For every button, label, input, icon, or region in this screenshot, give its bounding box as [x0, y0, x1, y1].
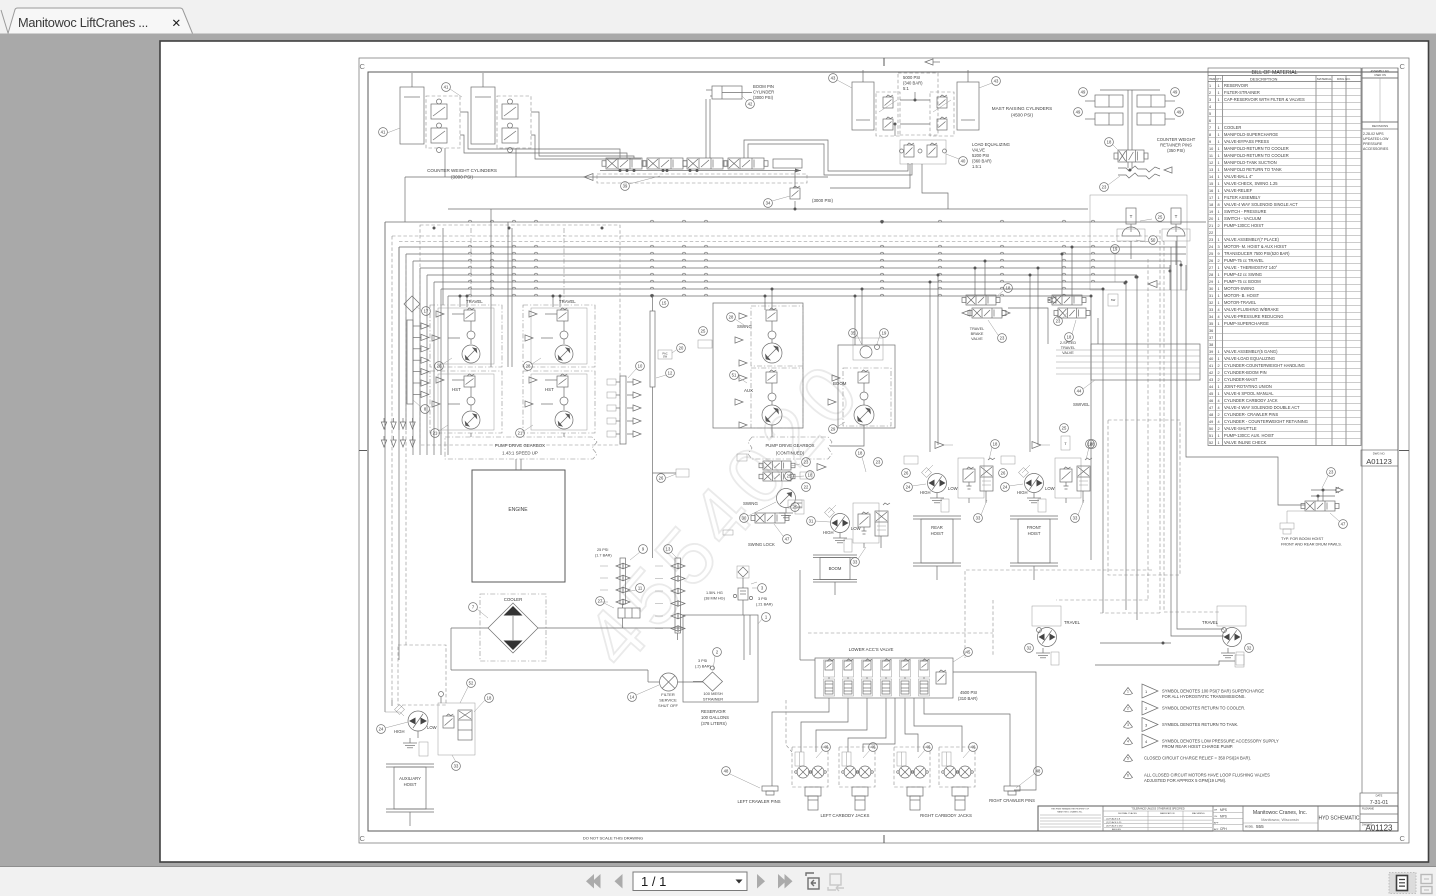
svg-text:1: 1: [1218, 126, 1220, 130]
previous view icon: [806, 873, 819, 889]
aux valve block: [438, 703, 475, 755]
svg-text:47: 47: [1209, 406, 1213, 410]
svg-text:BRAKE: BRAKE: [971, 332, 984, 336]
svg-text:APP: APP: [1214, 822, 1219, 825]
svg-text:23: 23: [1329, 470, 1334, 475]
svg-text:STRAINER: STRAINER: [703, 697, 723, 702]
wire boom pin down: [705, 99, 707, 158]
REAR hoist cluster: [902, 440, 1000, 580]
balloon 33: [452, 762, 461, 771]
svg-text:20: 20: [679, 346, 684, 351]
last page button: [778, 874, 786, 889]
svg-text:18: 18: [1107, 140, 1112, 145]
svg-text:49: 49: [1076, 110, 1081, 115]
svg-text:COUNTER WEIGHT: COUNTER WEIGHT: [1157, 137, 1196, 142]
balloon 26: [902, 469, 911, 478]
balloon 49: [1171, 88, 1180, 97]
svg-text:1 / 1: 1 / 1: [641, 874, 666, 889]
centering tick right: [1399, 450, 1409, 452]
svg-text:FILENAME: FILENAME: [1362, 808, 1374, 811]
cooler pipes: [451, 627, 488, 629]
boom hoist cluster: [785, 449, 890, 595]
svg-text:21: 21: [1209, 224, 1213, 228]
svg-text:LEFT CRAWLER PINS: LEFT CRAWLER PINS: [737, 799, 780, 804]
balloon 49: [1074, 108, 1083, 117]
svg-text:✕: ✕: [172, 18, 182, 30]
bank phantom outline: [597, 174, 807, 183]
svg-text:17: 17: [1209, 196, 1213, 200]
svg-text:VALVE-BYPASS PRESS: VALVE-BYPASS PRESS: [1224, 139, 1269, 144]
balloon 48: [722, 767, 731, 776]
cylinder counterweight: [400, 87, 424, 144]
svg-text:FRONT AND REAR DRUM PAWLS.: FRONT AND REAR DRUM PAWLS.: [1281, 543, 1342, 547]
note 3 symbol: [1124, 721, 1133, 728]
svg-text:CYLINDER-COUNTERWEIGHT HANDLIN: CYLINDER-COUNTERWEIGHT HANDLING: [1224, 363, 1305, 368]
travel motor right: [1202, 606, 1253, 665]
svg-text:35: 35: [851, 331, 856, 336]
svg-text:ADJUSTED FOR APPROX 5 GPM(19 L: ADJUSTED FOR APPROX 5 GPM(19 LPM).: [1144, 778, 1226, 783]
svg-text:15: 15: [662, 301, 667, 306]
svg-text:VALVE-LOAD EQUALIZING: VALVE-LOAD EQUALIZING: [1224, 356, 1275, 361]
aux wires: [384, 700, 386, 712]
svg-text:555: 555: [1256, 824, 1264, 829]
balloon 19: [880, 329, 889, 338]
svg-text:49: 49: [1173, 90, 1178, 95]
svg-text:3 PSI: 3 PSI: [698, 659, 707, 663]
svg-text:MANITOWOC CRANES, INC.: MANITOWOC CRANES, INC.: [1057, 811, 1083, 814]
svg-text:TYP. FOR BOOM HOIST: TYP. FOR BOOM HOIST: [1281, 537, 1324, 541]
down arrow rows: [381, 422, 386, 429]
balloon 13: [664, 545, 673, 554]
svg-text:MPS: MPS: [1220, 815, 1227, 819]
pump group AUX: [751, 368, 803, 428]
svg-text:6: 6: [1127, 774, 1129, 778]
valve block counterweight: [426, 96, 460, 148]
charge pump small: [853, 338, 883, 360]
svg-text:49: 49: [1209, 420, 1213, 424]
svg-text:31: 31: [809, 519, 814, 524]
svg-text:8: 8: [1209, 133, 1211, 137]
svg-text:FILTER-STRAINER: FILTER-STRAINER: [1224, 90, 1260, 95]
svg-text:23: 23: [1056, 319, 1061, 324]
svg-text:45: 45: [1209, 392, 1213, 396]
svg-text:1: 1: [1218, 238, 1220, 242]
svg-text:CYLINDER - COUNTERWEIGHT RETAI: CYLINDER - COUNTERWEIGHT RETAINING: [1224, 419, 1308, 424]
pump group HST: [430, 371, 502, 433]
svg-text:MPS: MPS: [1220, 808, 1227, 812]
svg-text:ANGLES: ANGLES: [1112, 828, 1121, 831]
svg-text:33: 33: [853, 560, 858, 565]
svg-text:MOTOR-TRAVEL: MOTOR-TRAVEL: [1224, 300, 1257, 305]
left crawler pins: [722, 767, 781, 804]
balloon 25: [699, 327, 708, 336]
svg-text:40: 40: [961, 159, 966, 164]
svg-text:5200 PSI: 5200 PSI: [972, 153, 989, 158]
svg-text:HIGH: HIGH: [823, 530, 833, 535]
svg-text:1.43:1 SPEED UP: 1.43:1 SPEED UP: [502, 451, 538, 456]
svg-text:DWG NO.: DWG NO.: [1337, 77, 1351, 81]
svg-text:DATE: DATE: [1376, 794, 1383, 798]
svg-text:43: 43: [994, 79, 999, 84]
svg-text:LOW: LOW: [1045, 486, 1055, 491]
svg-text:CYLINDER CARBODY JACK: CYLINDER CARBODY JACK: [1224, 398, 1278, 403]
svg-text:52: 52: [1209, 441, 1213, 445]
svg-text:TRAVEL: TRAVEL: [1202, 620, 1219, 625]
tab bar: [0, 0, 1436, 34]
balloon 24: [377, 725, 386, 734]
svg-text:1: 1: [1218, 266, 1220, 270]
balloon 18: [485, 694, 494, 703]
scrolling mode icon: [1421, 875, 1432, 894]
pump high-low rear: [928, 474, 947, 493]
dashed bus wires: [392, 235, 1160, 237]
svg-text:PUMP DRIVE GEARBOX: PUMP DRIVE GEARBOX: [495, 443, 545, 448]
svg-text:35: 35: [1209, 322, 1213, 326]
balloon 8: [421, 405, 430, 414]
svg-text:(350 PSI): (350 PSI): [1167, 148, 1185, 153]
svg-text:(310 BAR): (310 BAR): [958, 696, 978, 701]
right crawler pins: [989, 767, 1042, 803]
svg-text:HIGH: HIGH: [920, 490, 930, 495]
svg-text:19: 19: [1113, 247, 1118, 252]
balloon 2: [713, 648, 722, 657]
svg-text:1: 1: [1218, 98, 1220, 102]
svg-text:44: 44: [1209, 385, 1213, 389]
balloon 47: [783, 535, 792, 544]
svg-text:RESERVOIR: RESERVOIR: [1224, 83, 1248, 88]
svg-text:C: C: [360, 834, 366, 843]
svg-text:25: 25: [793, 505, 798, 510]
svg-text:1: 1: [1218, 161, 1220, 165]
svg-text:2-SPEED: 2-SPEED: [1060, 341, 1077, 345]
svg-text:30: 30: [1209, 287, 1213, 291]
valve pair 23 18: [653, 454, 815, 547]
svg-text:30: 30: [742, 516, 747, 521]
svg-text:CYLINDER: CYLINDER: [753, 90, 774, 95]
svg-text:38: 38: [1209, 343, 1213, 347]
svg-text:2: 2: [1218, 224, 1220, 228]
svg-text:CLOSED CIRCUIT CHARGE RELIEF =: CLOSED CIRCUIT CHARGE RELIEF = 350 PSI(2…: [1144, 756, 1251, 761]
centering tick bottom: [883, 835, 885, 843]
arrow return: [1148, 281, 1157, 288]
date box: [1360, 793, 1398, 806]
svg-text:REAR: REAR: [931, 525, 943, 530]
svg-text:FILTER: FILTER: [661, 692, 675, 697]
svg-text:SWING LOCK: SWING LOCK: [748, 542, 775, 547]
travel and hst pump groups: [430, 228, 595, 437]
strainer 2: [703, 672, 723, 691]
svg-text:3: 3: [1209, 98, 1211, 102]
svg-text:SW: SW: [1111, 298, 1116, 302]
svg-text:QTY: QTY: [1216, 77, 1222, 81]
pump drive gearbox: [445, 437, 597, 459]
svg-text:APP: APP: [1214, 828, 1219, 831]
title block: [1038, 806, 1398, 831]
svg-text:51: 51: [1209, 434, 1213, 438]
svg-text:13: 13: [666, 547, 671, 552]
bus junction dots: [764, 295, 767, 298]
svg-text:PUMP-130CC AUX. HOIST: PUMP-130CC AUX. HOIST: [1224, 433, 1275, 438]
svg-text:MOTOR- B. HOIST: MOTOR- B. HOIST: [1224, 293, 1260, 298]
svg-text:VALVE-PRESSURE REDUCING: VALVE-PRESSURE REDUCING: [1224, 314, 1283, 319]
balloon 42: [746, 100, 755, 109]
svg-text:1: 1: [1218, 434, 1220, 438]
svg-text:42: 42: [748, 102, 753, 107]
svg-text:4500 PSI: 4500 PSI: [960, 690, 977, 695]
svg-text:2: 2: [1218, 371, 1220, 375]
svg-text:24: 24: [1209, 245, 1213, 249]
bill of material table: [1208, 68, 1361, 446]
svg-text:25 PSI: 25 PSI: [597, 548, 608, 552]
balloon 49: [1079, 88, 1088, 97]
svg-text:VALVE ASSEMBLY(5 GANG): VALVE ASSEMBLY(5 GANG): [1224, 349, 1278, 354]
svg-text:A01123: A01123: [1366, 824, 1394, 833]
svg-text:(.21 BAR): (.21 BAR): [756, 603, 773, 607]
svg-text:23: 23: [1000, 336, 1005, 341]
note 5 symbol: [1124, 755, 1133, 762]
svg-text:4: 4: [1218, 399, 1220, 403]
pump group TRAVEL: [523, 305, 595, 367]
wire lower run: [405, 176, 828, 178]
svg-text:33: 33: [454, 764, 459, 769]
svg-text:28: 28: [729, 315, 734, 320]
svg-text:CH: CH: [1214, 816, 1218, 818]
balloon 31: [807, 517, 816, 526]
svg-text:(4500 PSI): (4500 PSI): [1011, 113, 1033, 118]
svg-text:SWITCH - VACUUM: SWITCH - VACUUM: [1224, 216, 1262, 221]
bank relief 4500: [936, 672, 946, 684]
svg-text:AUXILIARY: AUXILIARY: [399, 776, 421, 781]
svg-text:25: 25: [701, 329, 706, 334]
balloon 17: [422, 307, 431, 316]
balloon 15: [660, 299, 669, 308]
balloon 33: [851, 558, 860, 567]
svg-text:TRAVEL: TRAVEL: [466, 299, 483, 304]
svg-text:SHUT OFF: SHUT OFF: [658, 703, 678, 708]
svg-text:C: C: [1400, 62, 1406, 71]
svg-text:PUMP-42 cc SWING: PUMP-42 cc SWING: [1224, 272, 1262, 277]
counterweight retaining cylinders 49: [1074, 88, 1196, 192]
svg-text:39: 39: [623, 184, 628, 189]
svg-text:34: 34: [1209, 315, 1213, 319]
cooler 7: [451, 594, 683, 682]
FRONT hoist cluster: [999, 440, 1097, 580]
svg-text:MODEL: MODEL: [1245, 826, 1254, 829]
svg-text:DO NOT SCALE THIS DRAWING: DO NOT SCALE THIS DRAWING: [583, 836, 643, 841]
svg-text:VALVE INLINE CHECK: VALVE INLINE CHECK: [1224, 440, 1267, 445]
svg-text:46: 46: [1209, 399, 1213, 403]
svg-text:15: 15: [1209, 182, 1213, 186]
svg-text:HST: HST: [545, 387, 554, 392]
balloon 30: [740, 514, 749, 523]
svg-text:VALVE-4 WAY SOLENOID SINGLE AC: VALVE-4 WAY SOLENOID SINGLE ACT: [1224, 202, 1298, 207]
svg-text:1: 1: [1218, 210, 1220, 214]
svg-text:VALVE-CHECK, SWING 1.25: VALVE-CHECK, SWING 1.25: [1224, 181, 1278, 186]
left column to aux hoist: [398, 247, 400, 660]
jack cylinder 3: [907, 787, 923, 796]
svg-text:26: 26: [1001, 471, 1006, 476]
balloon 32: [1245, 644, 1254, 653]
svg-text:1: 1: [1218, 273, 1220, 277]
svg-text:SWING: SWING: [737, 324, 752, 329]
svg-text:10: 10: [638, 364, 643, 369]
svg-text:TRAVEL: TRAVEL: [970, 327, 985, 331]
svg-text:TRANSDUCER 7500 PSI(520 BAR): TRANSDUCER 7500 PSI(520 BAR): [1224, 251, 1290, 256]
svg-text:DECIMAL PLACES: DECIMAL PLACES: [1118, 812, 1137, 815]
svg-text:MANIFOLD-RETURN TO COOLER: MANIFOLD-RETURN TO COOLER: [1224, 146, 1289, 151]
svg-text:46: 46: [926, 745, 931, 750]
svg-text:COOLER: COOLER: [504, 597, 523, 602]
balloon 26: [999, 469, 1008, 478]
pump high-low front: [1025, 474, 1044, 493]
balloon 18: [856, 449, 865, 458]
svg-text:4: 4: [1218, 420, 1220, 424]
svg-text:(.2) BAR): (.2) BAR): [695, 665, 712, 669]
svg-text:16: 16: [1209, 189, 1213, 193]
svg-text:18: 18: [1209, 203, 1213, 207]
svg-text:REVISIONS: REVISIONS: [1372, 124, 1388, 128]
toolbar: [0, 867, 1436, 896]
balloon 39: [621, 182, 630, 191]
svg-text:VALVE-SHUTTLE: VALVE-SHUTTLE: [1224, 426, 1257, 431]
balloon 28: [524, 362, 533, 371]
svg-text:50: 50: [1151, 238, 1156, 243]
balloon 28: [727, 313, 736, 322]
svg-text:(3000 PSI): (3000 PSI): [753, 95, 774, 100]
valve block mast: [876, 92, 900, 136]
pump group SWING: [751, 306, 803, 366]
svg-text:37: 37: [1209, 336, 1213, 340]
svg-text:FROM REAR HOIST CHARGE PUMP.: FROM REAR HOIST CHARGE PUMP.: [1162, 744, 1233, 749]
svg-text:23: 23: [804, 460, 809, 465]
valve block mast: [930, 92, 954, 136]
balloon 26: [657, 474, 666, 483]
balloon 23: [998, 334, 1007, 343]
svg-text:9: 9: [1209, 140, 1211, 144]
balloon 40: [959, 157, 968, 166]
svg-text:25: 25: [1062, 426, 1067, 431]
svg-text:CYLINDER- CRAWLER PINS: CYLINDER- CRAWLER PINS: [1224, 412, 1278, 417]
svg-text:1: 1: [1218, 357, 1220, 361]
svg-text:32: 32: [1247, 646, 1252, 651]
balloon 47: [1339, 520, 1348, 529]
balloon 41: [442, 83, 451, 92]
svg-text:4: 4: [1127, 740, 1129, 744]
svg-text:SYMBOL DENOTES LOW PRESSURE AC: SYMBOL DENOTES LOW PRESSURE ACCESSORY SU…: [1162, 739, 1279, 744]
svg-text:(38 MM HG): (38 MM HG): [704, 597, 726, 601]
svg-text:FABRICATION: FABRICATION: [1160, 812, 1175, 815]
svg-text:18: 18: [993, 442, 998, 447]
svg-text:4: 4: [1218, 315, 1220, 319]
svg-text:33: 33: [976, 516, 981, 521]
mast raising cylinder group: [829, 59, 1053, 136]
balloon 35: [849, 329, 858, 338]
note 4 symbol: [1124, 738, 1133, 745]
svg-text:VALVE: VALVE: [1062, 351, 1074, 355]
svg-text:11: 11: [638, 586, 643, 591]
svg-text:47: 47: [1341, 522, 1346, 527]
REAR hoist drum: [913, 515, 961, 517]
engine: [472, 459, 565, 582]
svg-text:PUMP-75 cc TRAVEL: PUMP-75 cc TRAVEL: [1224, 258, 1264, 263]
svg-text:1: 1: [1218, 168, 1220, 172]
svg-text:1: 1: [1218, 175, 1220, 179]
svg-text:3 PSI: 3 PSI: [758, 597, 767, 601]
svg-text:24: 24: [906, 485, 911, 490]
load equalizing valve 40: [830, 140, 1010, 209]
svg-text:FOR ALL HYDROSTATIC TRANSMISSI: FOR ALL HYDROSTATIC TRANSMISSIONS.: [1162, 694, 1246, 699]
balloon 7: [469, 603, 478, 612]
svg-text:46: 46: [824, 745, 829, 750]
carbody jack cluster 4: [939, 743, 977, 810]
svg-text:SYMBOL DENOTES 100 PSI(7 BAR): SYMBOL DENOTES 100 PSI(7 BAR) SUPERCHARG…: [1162, 689, 1264, 694]
svg-text:40: 40: [1209, 357, 1213, 361]
svg-text:1.5IN. HG: 1.5IN. HG: [706, 591, 723, 595]
svg-text:51: 51: [732, 373, 737, 378]
breather 3: [737, 566, 749, 578]
svg-text:HIGH: HIGH: [394, 729, 404, 734]
balloon 51: [730, 371, 739, 380]
balloon 23: [1100, 183, 1109, 192]
counterweight cylinder group: [379, 73, 531, 180]
svg-text:DWG NO.: DWG NO.: [1373, 452, 1386, 456]
svg-text:VALVE-BALL 4": VALVE-BALL 4": [1224, 174, 1253, 179]
svg-text:1: 1: [1218, 322, 1220, 326]
svg-text:25: 25: [1158, 215, 1163, 220]
wire mast link: [900, 99, 930, 101]
wires to swivel: [1008, 308, 1048, 344]
manifold bar 15: [650, 296, 685, 558]
svg-text:48: 48: [724, 769, 729, 774]
balloon 50: [1149, 236, 1158, 245]
centering tick left: [359, 450, 367, 452]
svg-text:52: 52: [469, 681, 474, 686]
balloon 3: [758, 584, 767, 593]
svg-text:10: 10: [1209, 147, 1213, 151]
svg-text:1: 1: [1218, 91, 1220, 95]
svg-text:HOIST: HOIST: [404, 782, 417, 787]
svg-text:1: 1: [1218, 84, 1220, 88]
svg-text:1: 1: [1218, 392, 1220, 396]
svg-text:1: 1: [1218, 140, 1220, 144]
next view icon disabled: [828, 874, 844, 891]
svg-text:LEFT CARBODY JACKS: LEFT CARBODY JACKS: [821, 813, 870, 818]
balloon 34: [764, 199, 773, 208]
balloon 43: [829, 74, 838, 83]
svg-text:21: 21: [433, 431, 438, 436]
svg-text:46: 46: [871, 745, 876, 750]
svg-text:21: 21: [518, 431, 523, 436]
svg-text:ENGINE: ENGINE: [508, 507, 528, 513]
svg-text:26: 26: [437, 364, 442, 369]
svg-text:39: 39: [1209, 350, 1213, 354]
svg-text:LOWER ACC'S VALVE: LOWER ACC'S VALVE: [849, 647, 894, 652]
svg-text:23: 23: [1209, 238, 1213, 242]
balloon 1: [762, 613, 771, 622]
svg-text:1: 1: [1218, 301, 1220, 305]
svg-text:FILTER ASSEMBLY: FILTER ASSEMBLY: [1224, 195, 1261, 200]
cylinder counterweight: [471, 87, 495, 144]
balloon 18: [991, 440, 1000, 449]
svg-text:2: 2: [1218, 364, 1220, 368]
balloon 23: [802, 458, 811, 467]
svg-text:TRAVEL: TRAVEL: [1061, 346, 1076, 350]
valve 27: [618, 608, 640, 618]
balloon 48: [1034, 767, 1043, 776]
svg-text:4: 4: [1218, 406, 1220, 410]
svg-text:6: 6: [1209, 119, 1211, 123]
svg-text:T: T: [1175, 214, 1178, 219]
